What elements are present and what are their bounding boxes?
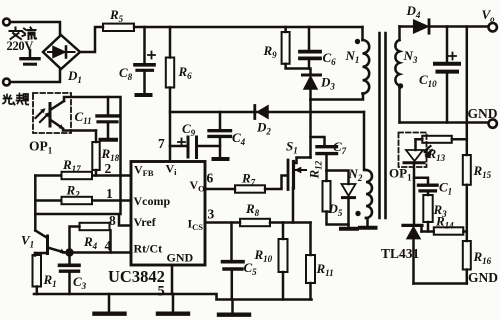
svg-text:TL431: TL431 (381, 246, 420, 261)
wire bridge to R5 (80, 27, 103, 52)
resistor R3 (423, 195, 432, 222)
feedback divider vertical from Vo (466, 27, 469, 156)
resistor R10 (282, 223, 285, 240)
resistor R16 (463, 241, 471, 270)
svg-text:6: 6 (207, 171, 214, 186)
secondary top rail (400, 25, 414, 28)
VCC line to D2 and N2 (170, 111, 364, 114)
terminal Vo (489, 23, 497, 31)
Vcomp pin1 line (35, 199, 131, 202)
diode D2 (253, 106, 256, 119)
svg-text:1: 1 (106, 186, 113, 201)
phototransistor OP1 (49, 104, 52, 127)
resistor R14 (422, 230, 434, 233)
vertical joining R17/R2 to V1 collector (34, 176, 37, 231)
collector wire of OP1 (64, 97, 121, 214)
resistor R12 (325, 171, 328, 182)
svg-text:2: 2 (105, 161, 112, 176)
Ics pin3 line and R8 (205, 221, 240, 224)
ground bar 3 (231, 300, 234, 313)
diode D3 (clamp) (309, 69, 312, 74)
light arrows (36, 110, 49, 122)
ground bar 2 (172, 294, 175, 312)
svg-text:Vref: Vref (134, 215, 157, 229)
capacitor C3 (68, 255, 71, 264)
bottom rail (primary ground) (34, 294, 312, 300)
Vo pin6 line and R7 (205, 188, 235, 191)
svg-text:7: 7 (158, 136, 165, 151)
primary winding N1 (361, 27, 364, 40)
svg-text:GND: GND (167, 251, 194, 265)
transformer core (378, 33, 381, 218)
resistor R9 (284, 27, 287, 32)
svg-text:UC3842: UC3842 (108, 267, 165, 286)
svg-text:GND: GND (468, 270, 498, 285)
transistor V1 (35, 231, 47, 239)
svg-text:Vcomp: Vcomp (134, 194, 171, 208)
capacitor C11 (107, 97, 110, 114)
LED cathode wire to TL431 (413, 164, 416, 223)
secondary winding N3 (398, 27, 401, 41)
capacitor C6 (308, 27, 311, 50)
chassis ground below AC text (29, 50, 32, 57)
LED arrows (425, 146, 433, 155)
diode D4 (414, 20, 428, 33)
GND line (secondary) (400, 121, 489, 124)
terminal T1 (AC input top) (3, 19, 10, 26)
resistor R13 (422, 136, 452, 143)
terminal T2 (AC input bottom) (3, 79, 10, 86)
resistor R18 (95, 131, 98, 143)
resistor R2 (62, 197, 93, 204)
terminal GND (489, 119, 497, 127)
capacitor C7 (311, 137, 325, 145)
Rt/Ct pin4 line (73, 251, 131, 254)
wire T1 to bridge top (10, 22, 60, 35)
pin5 ground lead (171, 265, 174, 294)
label 光耦 (optocoupler) (3, 94, 28, 105)
transistor Q1 MOSFET S1 (287, 160, 290, 190)
drain node vertical wire (309, 100, 312, 158)
resistor R1 (34, 253, 37, 256)
capacitor C1 branch (414, 178, 428, 183)
emitter wire to R18 (63, 130, 96, 131)
resistor R5 (103, 24, 134, 31)
op-amp U1 UC3842 box (131, 162, 205, 266)
Vref pin8 line (35, 214, 131, 226)
output bottom rail (414, 282, 467, 285)
resistor R11 (309, 223, 312, 256)
capacitor C8 (143, 27, 146, 63)
dashed box optocoupler transistor side (33, 93, 71, 133)
dashed box optocoupler LED side (399, 133, 427, 168)
wire T2 to bridge bottom (10, 69, 60, 82)
resistor R6 (169, 27, 172, 58)
optocoupler LED (406, 150, 423, 161)
capacitor C5 (230, 223, 233, 260)
diode D5 (327, 171, 349, 185)
AC label 交流 220V (10, 28, 37, 40)
TL431 (403, 224, 422, 227)
top rail (primary +) (134, 26, 363, 28)
capacitor C9 (electrolytic on Vcc) (170, 145, 186, 148)
resistor R17 (62, 172, 93, 179)
capacitor C10 (446, 27, 449, 62)
node (junction dot) at pin4 (65, 248, 73, 256)
bridge rectifier D1 (43, 35, 80, 69)
ground bar 1 (108, 294, 111, 312)
VFB pin2 line (35, 174, 131, 177)
capacitor C4 (219, 112, 222, 129)
svg-text:Rt/Ct: Rt/Ct (134, 242, 163, 256)
resistor R4 (70, 227, 80, 249)
svg-text:5: 5 (158, 284, 165, 300)
svg-text:3: 3 (208, 207, 215, 222)
wire N1 bottom (311, 94, 364, 100)
resistor R15 (463, 155, 471, 185)
svg-text:4: 4 (105, 238, 112, 253)
auxiliary winding N2 (364, 112, 366, 170)
